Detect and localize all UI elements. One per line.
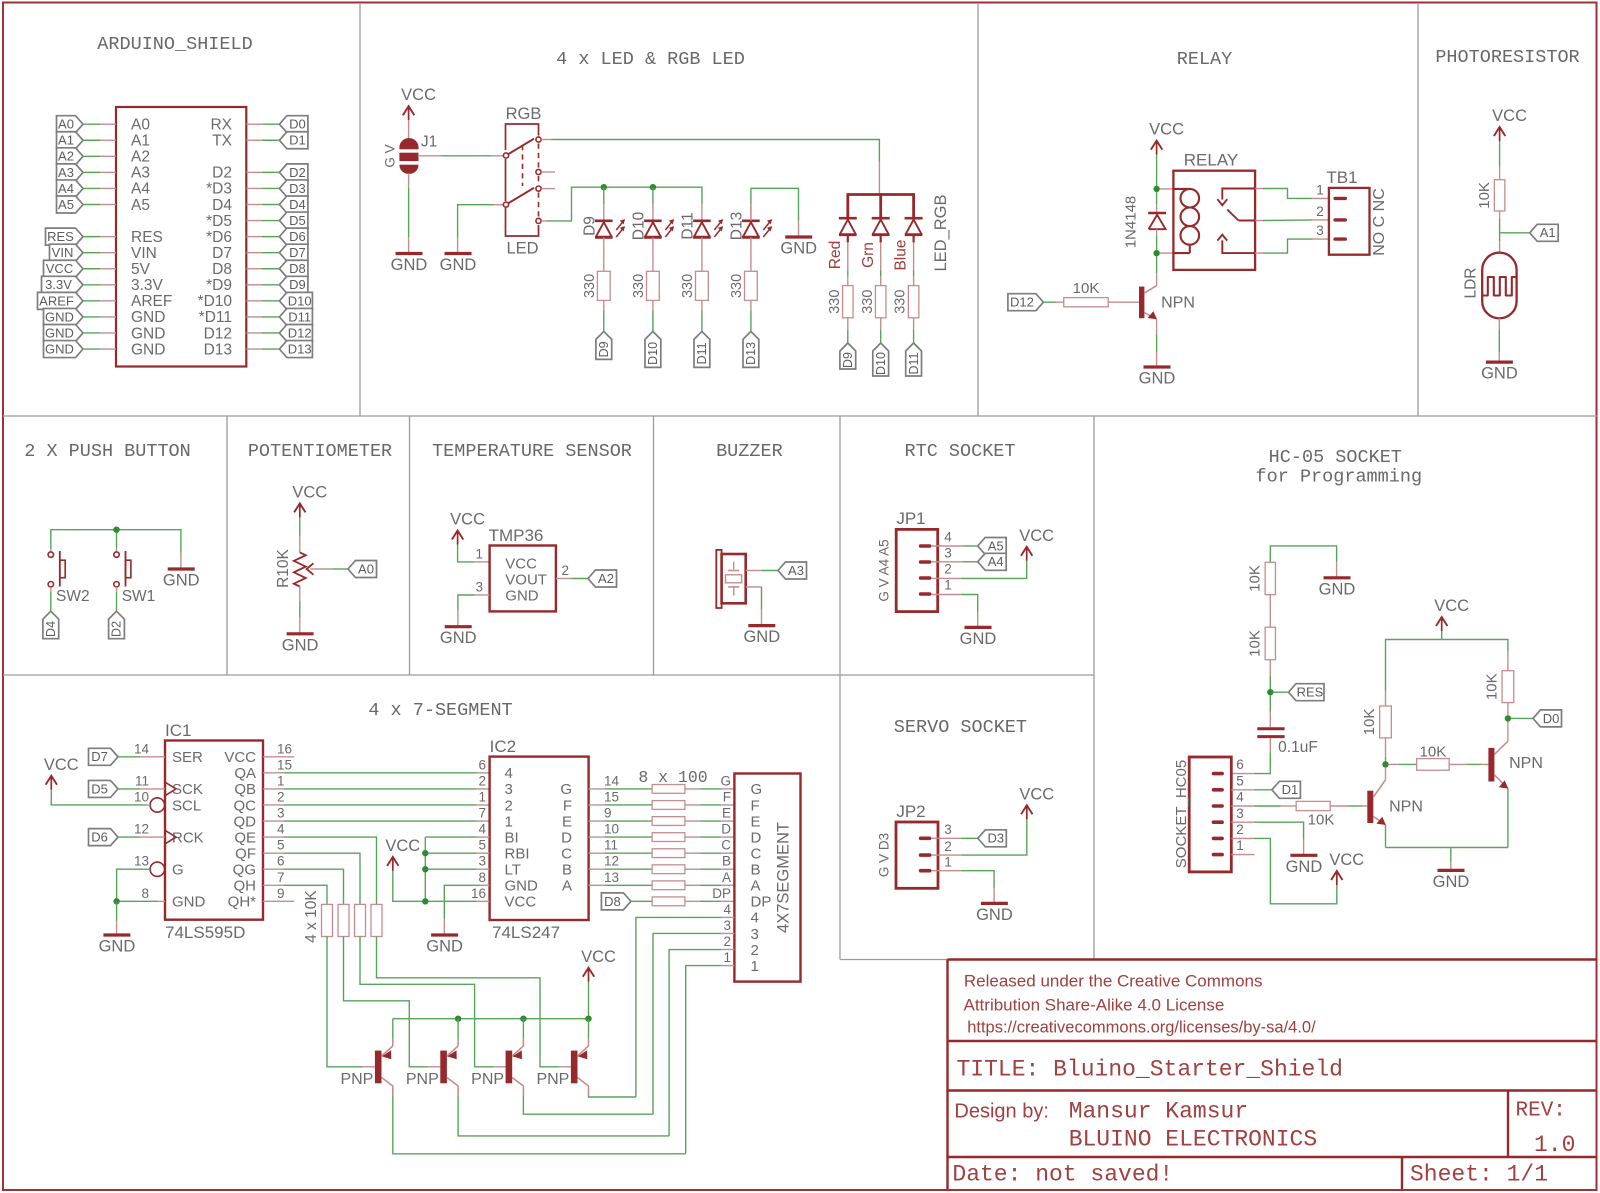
junction RBI: [422, 850, 428, 856]
svg-text:7: 7: [277, 870, 285, 885]
wire net D7: [262, 252, 279, 254]
wire Q2 emitter to rail: [1507, 788, 1509, 847]
push button SW2: [48, 549, 89, 605]
svg-text:D8: D8: [212, 261, 232, 278]
IC TMP36: [489, 526, 556, 611]
resistor 10K (photoresistor): [1476, 180, 1505, 211]
pin *D5 of ARDUINO_SHIELD: [246, 220, 262, 222]
svg-text:RES: RES: [1297, 685, 1324, 700]
push button SW1: [114, 549, 155, 605]
svg-text:8: 8: [141, 886, 149, 901]
svg-text:74LS247: 74LS247: [492, 923, 560, 942]
connector TB1: [1316, 168, 1369, 255]
wire divider node: [1499, 211, 1501, 219]
wire net A4: [83, 187, 100, 189]
svg-text:RELAY: RELAY: [1184, 151, 1239, 170]
power VCC (relay): [1149, 121, 1184, 155]
svg-text:6: 6: [277, 854, 285, 869]
svg-text:A4: A4: [988, 554, 1004, 569]
svg-text:12: 12: [134, 822, 149, 837]
LED D9: [581, 204, 625, 271]
port flag A0: [348, 561, 377, 578]
svg-text:D2: D2: [212, 165, 232, 182]
wire LED D10 cathode: [652, 187, 654, 204]
svg-text:VIN: VIN: [131, 245, 157, 262]
section divider horizontal y=416: [3, 415, 1597, 417]
svg-text:A1: A1: [131, 133, 150, 150]
junction Q1 collector node: [1382, 761, 1388, 767]
svg-text:D3: D3: [987, 831, 1004, 846]
svg-text:3: 3: [723, 918, 731, 933]
svg-text:4 x 7-SEGMENT: 4 x 7-SEGMENT: [368, 700, 512, 721]
wire Red to resistor: [847, 271, 849, 277]
wire IC2 E to resistor: [589, 820, 605, 822]
junction at SW1 top: [113, 527, 119, 533]
svg-text:B: B: [562, 862, 572, 879]
pin GND of ARDUINO_SHIELD: [100, 332, 116, 334]
wire net D10: [262, 300, 279, 302]
wire node to LDR: [1499, 233, 1501, 241]
ground (buttons): [163, 569, 200, 590]
port flag D7 (right): [279, 244, 308, 261]
pin *D11 of ARDUINO_SHIELD: [246, 316, 262, 318]
svg-text:12: 12: [604, 854, 619, 869]
port flag RES: [1289, 684, 1325, 701]
svg-text:VCC: VCC: [44, 756, 79, 774]
svg-text:Blue: Blue: [893, 239, 910, 270]
port flag D13 (right): [279, 341, 312, 358]
wire emitter ground rail: [1386, 847, 1508, 849]
resistor 10K (R up2): [1247, 627, 1276, 660]
wire IC2 F to resistor: [589, 804, 605, 806]
resistor 10K (Q1 collector pullup): [1385, 691, 1387, 706]
port flag RES (left): [46, 228, 84, 245]
port flag D13 (bottom): [743, 331, 759, 367]
ground (JP1): [960, 627, 997, 648]
wire VCC rail: [1386, 640, 1508, 691]
wire JP1-2 to VCC: [932, 577, 962, 579]
svg-text:10: 10: [604, 822, 619, 837]
wire Q1 collector to node: [1385, 767, 1387, 780]
svg-text:D4: D4: [289, 197, 306, 212]
svg-text:3: 3: [478, 854, 486, 869]
wire VCC to IC2 VCC pin: [393, 871, 423, 901]
svg-text:1: 1: [475, 547, 483, 562]
pin GND of ARDUINO_SHIELD: [100, 316, 116, 318]
svg-text:1: 1: [505, 813, 513, 830]
IC1 74LS595D box: [165, 721, 263, 942]
wire IC1 QE to 10K: [263, 836, 283, 838]
svg-text:REV:: REV:: [1516, 1100, 1566, 1123]
wire net D8: [262, 268, 279, 270]
wire D8 to DP resistor: [631, 900, 652, 902]
svg-text:VCC: VCC: [1019, 785, 1054, 803]
svg-text:PNP: PNP: [471, 1071, 504, 1088]
svg-text:A: A: [722, 870, 731, 885]
svg-text:D6: D6: [91, 830, 108, 845]
svg-text:5V: 5V: [131, 261, 151, 278]
svg-text:NPN: NPN: [1161, 295, 1195, 312]
svg-text:330: 330: [729, 274, 745, 298]
svg-text:5: 5: [277, 838, 285, 853]
port flag 3.3V (left): [42, 276, 84, 293]
wire net D2: [262, 171, 279, 173]
svg-text:10: 10: [134, 789, 149, 804]
wire emitter PNP1 to rail: [392, 1019, 394, 1039]
resistor 100 (B): [652, 865, 685, 874]
junction rail PNP2: [455, 1016, 461, 1022]
wire IC2 D to resistor: [589, 836, 605, 838]
section divider vertical x=840 (buzzer/rtc): [839, 416, 841, 960]
wire VCC to SCL bubble: [51, 790, 146, 805]
svg-text:3.3V: 3.3V: [131, 277, 164, 294]
svg-text:GND: GND: [960, 630, 997, 648]
svg-text:D10: D10: [874, 352, 888, 375]
port flag A1 (left): [57, 132, 84, 149]
wire net D9: [262, 284, 279, 286]
svg-text:JP2: JP2: [896, 802, 925, 821]
svg-text:2: 2: [478, 773, 486, 788]
svg-text:3: 3: [751, 926, 759, 943]
section divider horizontal y=675: [3, 674, 1094, 676]
wire D12 to resistor: [1043, 301, 1056, 303]
svg-text:VCC: VCC: [1329, 851, 1364, 869]
svg-text:A4: A4: [131, 181, 150, 198]
wire pullup to Q1 collector node: [1385, 738, 1387, 757]
svg-text:C: C: [561, 845, 572, 862]
svg-text:B: B: [722, 854, 731, 869]
svg-text:D11: D11: [907, 352, 921, 374]
photoresistor LDR: [1462, 253, 1516, 319]
port flag D5 (right): [279, 212, 308, 229]
wire collector PNP4 to digit column: [589, 1095, 636, 1097]
junction IC1 GND: [113, 898, 119, 904]
svg-text:1N4148: 1N4148: [1123, 196, 1140, 249]
svg-text:1: 1: [751, 958, 759, 975]
pin 3.3V of ARDUINO_SHIELD: [100, 284, 116, 286]
resistor 10K (Q2 collector pullup): [1507, 703, 1509, 716]
svg-text:3: 3: [1316, 223, 1324, 238]
svg-text:LED: LED: [506, 240, 538, 258]
svg-text:J1: J1: [421, 134, 437, 151]
svg-text:QD: QD: [234, 813, 257, 830]
wire socket pin5 to D1: [1231, 789, 1254, 791]
svg-text:GND: GND: [440, 256, 477, 274]
svg-text:VCC: VCC: [224, 749, 256, 766]
svg-text:D: D: [721, 822, 731, 837]
svg-text:D0: D0: [289, 117, 306, 132]
svg-text:D9: D9: [597, 341, 611, 357]
port flag D1: [1272, 781, 1301, 798]
svg-text:10K: 10K: [1308, 812, 1335, 829]
wire JP2-1 to GND: [932, 870, 962, 872]
svg-text:GND: GND: [780, 240, 817, 258]
svg-text:D7: D7: [212, 245, 232, 262]
wire Q2 collector to D0 node: [1507, 721, 1509, 741]
svg-text:D3: D3: [289, 181, 306, 196]
svg-text:2: 2: [1236, 822, 1244, 837]
port flag D8 (right): [279, 260, 308, 277]
ground (HC05 socket): [1286, 855, 1323, 876]
svg-text:VCC: VCC: [401, 86, 436, 104]
svg-text:2: 2: [751, 942, 759, 959]
LED_RGB common anode bus: [848, 193, 914, 218]
svg-text:Design by:: Design by:: [954, 1101, 1049, 1123]
junction D0 node: [1505, 715, 1511, 721]
svg-text:BUZZER: BUZZER: [716, 441, 783, 462]
port flag D11 (right): [279, 308, 312, 325]
resistor 100 (D): [652, 833, 685, 842]
svg-text:*D3: *D3: [206, 181, 232, 198]
wire net GND: [83, 348, 100, 350]
svg-text:GND: GND: [131, 325, 165, 342]
svg-text:VCC: VCC: [450, 511, 485, 529]
port flag D11 (bottom): [694, 331, 710, 367]
port flag A0 (left): [57, 116, 84, 133]
wire junction2 to NPN collector: [1156, 256, 1158, 273]
svg-text:D8: D8: [604, 894, 621, 909]
wire LED D9 cathode: [603, 187, 605, 204]
transistor Q1 NPN (HC05): [1367, 780, 1423, 825]
svg-text:D6: D6: [289, 229, 306, 244]
svg-text:AREF: AREF: [131, 293, 172, 310]
svg-text:5: 5: [1236, 773, 1244, 788]
svg-text:GND: GND: [505, 878, 539, 895]
wire to flag D9: [847, 318, 849, 330]
svg-text:A5: A5: [131, 197, 150, 214]
wire base net PNP1: [327, 937, 363, 1067]
LED D10: [631, 204, 675, 271]
section divider vertical x=1418 (relay/photoresistor): [1417, 3, 1419, 416]
wire IC2 A to resistor: [589, 884, 605, 886]
wire IC2 G to resistor: [589, 788, 605, 790]
junction on LED bus at D9: [601, 184, 607, 190]
wire emitter PNP4 to rail: [588, 1019, 590, 1039]
wire switch pole2 to GND: [458, 205, 495, 237]
ground (potentiometer): [282, 634, 319, 655]
svg-text:7: 7: [478, 806, 486, 821]
junction on LED bus at D10: [650, 184, 656, 190]
wire diode anode to junction2: [1156, 235, 1158, 253]
svg-text:PNP: PNP: [340, 1071, 373, 1088]
power VCC (HC05 right): [1434, 597, 1469, 631]
wire net D12: [262, 332, 279, 334]
pin *D10 of ARDUINO_SHIELD: [246, 300, 262, 302]
resistor 330 (Blue): [893, 286, 919, 318]
pin IC1 VCC16 stub: [263, 756, 294, 758]
pin A2 of ARDUINO_SHIELD: [100, 155, 116, 157]
wire net VIN: [83, 252, 100, 254]
wire IC2 GND to ground: [480, 884, 490, 886]
svg-text:VOUT: VOUT: [505, 571, 547, 588]
wire D6 to RCK: [118, 836, 140, 838]
resistor 100 (C): [652, 849, 685, 858]
port flag GND (left): [44, 308, 84, 325]
svg-text:GND: GND: [282, 636, 319, 654]
wire SW2 to flag D4: [50, 587, 52, 592]
svg-text:3.3V: 3.3V: [45, 277, 72, 292]
wire net D1: [262, 139, 279, 141]
svg-text:GND: GND: [743, 628, 780, 646]
svg-text:GND: GND: [440, 629, 477, 647]
svg-text:D2: D2: [289, 165, 306, 180]
svg-text:6: 6: [1236, 757, 1244, 772]
wire junction to coil pin1: [1160, 188, 1174, 190]
port flag D12: [1008, 294, 1044, 311]
junction LT: [422, 866, 428, 872]
diode Blue of LED_RGB: [893, 218, 923, 270]
wire base net PNP3: [360, 937, 494, 1067]
svg-text:9: 9: [277, 886, 285, 901]
svg-text:D11: D11: [288, 309, 311, 324]
port flag D2 (right): [279, 164, 308, 181]
svg-text:330: 330: [680, 274, 696, 298]
wire IC1 QC to IC2: [263, 804, 283, 806]
ground (TMP36): [440, 627, 477, 648]
svg-text:15: 15: [604, 789, 619, 804]
wire resistor to display C: [685, 852, 700, 854]
wire relay C to TB1-2: [1255, 220, 1263, 222]
svg-text:VCC: VCC: [1434, 597, 1469, 615]
svg-text:*D10: *D10: [198, 293, 233, 310]
svg-text:3: 3: [944, 822, 952, 837]
wire pin3 to GND: [475, 594, 490, 596]
svg-text:ARDUINO_SHIELD: ARDUINO_SHIELD: [97, 34, 252, 55]
svg-text:D7: D7: [91, 749, 108, 764]
svg-text:GND: GND: [163, 572, 200, 590]
resistor 100 (F): [652, 801, 685, 810]
svg-text:11: 11: [604, 838, 618, 853]
wire base net PNP2: [344, 937, 429, 1067]
svg-text:4: 4: [723, 902, 731, 917]
svg-text:5: 5: [478, 838, 486, 853]
svg-text:R10K: R10K: [275, 548, 292, 587]
svg-text:DP: DP: [712, 886, 731, 901]
pin VIN of ARDUINO_SHIELD: [100, 252, 116, 254]
port flag GND (left): [44, 324, 84, 341]
power VCC (HC05 socket): [1329, 851, 1364, 885]
pin socket pin1 stub: [1231, 854, 1254, 856]
power VCC for J1: [401, 86, 436, 120]
wire RES node to capacitor: [1269, 695, 1271, 712]
svg-text:VCC: VCC: [385, 837, 420, 855]
svg-text:G: G: [560, 781, 572, 798]
svg-text:GND: GND: [1286, 858, 1323, 876]
IC1 clock wedge RCK: [165, 830, 176, 844]
svg-text:D0: D0: [1543, 711, 1560, 726]
IC2 74LS247 box: [490, 737, 589, 942]
ground (JP2): [976, 903, 1013, 924]
svg-text:SER: SER: [172, 749, 203, 766]
port flag D3: [978, 830, 1007, 847]
svg-text:A2: A2: [131, 149, 150, 166]
port flag A4 (left): [57, 180, 84, 197]
wire PNP emitter rail: [393, 1018, 589, 1020]
svg-text:4X7SEGMENT: 4X7SEGMENT: [774, 822, 792, 933]
svg-text:VCC: VCC: [581, 948, 616, 966]
pin D2 of ARDUINO_SHIELD: [246, 171, 262, 173]
svg-text:SOCKET_HC05: SOCKET_HC05: [1173, 760, 1190, 868]
svg-text:F: F: [563, 797, 572, 814]
svg-text:4 x 10K: 4 x 10K: [303, 890, 320, 943]
svg-text:TEMPERATURE SENSOR: TEMPERATURE SENSOR: [432, 441, 632, 462]
svg-text:330: 330: [893, 290, 909, 314]
resistor 330 (D13): [729, 271, 757, 300]
power VCC (PNP): [581, 948, 616, 982]
wire D13 cathode to GND: [750, 204, 752, 220]
wire SW1 to flag D2: [116, 587, 118, 592]
svg-text:10K: 10K: [1361, 709, 1378, 736]
svg-text:D9: D9: [289, 277, 306, 292]
svg-text:A: A: [562, 878, 572, 895]
svg-text:G: G: [172, 862, 184, 879]
svg-text:A0: A0: [58, 117, 74, 132]
wire resistor to display F: [685, 804, 700, 806]
wire display digit 3 to PNP collector: [721, 932, 734, 934]
wire base resistor to Q1: [1330, 805, 1347, 807]
svg-text:RES: RES: [131, 229, 163, 246]
wire switch to RGB common: [541, 139, 551, 141]
wire emitter PNP2 to rail: [457, 1019, 459, 1039]
port flag AREF (left): [38, 292, 84, 309]
svg-text:A2: A2: [58, 149, 74, 164]
svg-text:14: 14: [134, 741, 150, 756]
wire net GND: [83, 316, 100, 318]
svg-text:SW2: SW2: [56, 588, 90, 605]
display 4X7SEGMENT box: [734, 774, 800, 982]
wire capacitor to socket pin6: [1269, 738, 1271, 753]
wire to RES node: [1269, 660, 1271, 676]
transistor NPN (relay): [1139, 286, 1195, 320]
svg-text:TMP36: TMP36: [489, 526, 544, 545]
svg-text:QH*: QH*: [228, 894, 257, 911]
pin AREF of ARDUINO_SHIELD: [100, 300, 116, 302]
buzzer SG1: [716, 550, 745, 608]
svg-text:2: 2: [723, 934, 731, 949]
ground (photoresistor): [1481, 362, 1518, 383]
wire button common net: [51, 530, 181, 553]
resistor 100 (G): [652, 785, 685, 794]
wire Q1 emitter to rail: [1385, 825, 1387, 848]
port flag A3: [778, 562, 807, 579]
svg-text:RX: RX: [210, 117, 232, 134]
svg-text:D10: D10: [646, 342, 660, 365]
svg-text:RCK: RCK: [172, 829, 204, 846]
svg-text:D5: D5: [91, 781, 108, 796]
svg-text:G V: G V: [383, 144, 398, 167]
wire net A0: [83, 123, 100, 125]
svg-text:JP1: JP1: [896, 509, 925, 528]
resistor 330 (D11): [680, 271, 708, 300]
wire VCC to R10K: [299, 517, 301, 536]
power VCC (TMP36): [450, 511, 485, 545]
pin D13 of ARDUINO_SHIELD: [246, 348, 262, 350]
port flag A4: [978, 553, 1007, 570]
transistor PNP2 (PNP): [406, 1039, 458, 1096]
transistor PNP1 (PNP): [340, 1039, 392, 1096]
port flag D10 (RGB): [873, 343, 889, 376]
power VCC (IC1 SCL): [44, 756, 79, 790]
svg-text:POTENTIOMETER: POTENTIOMETER: [248, 441, 392, 462]
IC1 inversion bubble G: [150, 862, 164, 876]
svg-text:1: 1: [944, 855, 952, 870]
svg-text:Sheet: 1/1: Sheet: 1/1: [1410, 1162, 1548, 1188]
wire resistor to display DP: [685, 900, 700, 902]
svg-text:LDR: LDR: [1462, 267, 1479, 298]
power VCC (photoresistor): [1492, 107, 1527, 141]
svg-text:13: 13: [604, 870, 619, 885]
section divider vertical x=1094 (rtc/hc05): [1093, 416, 1095, 960]
